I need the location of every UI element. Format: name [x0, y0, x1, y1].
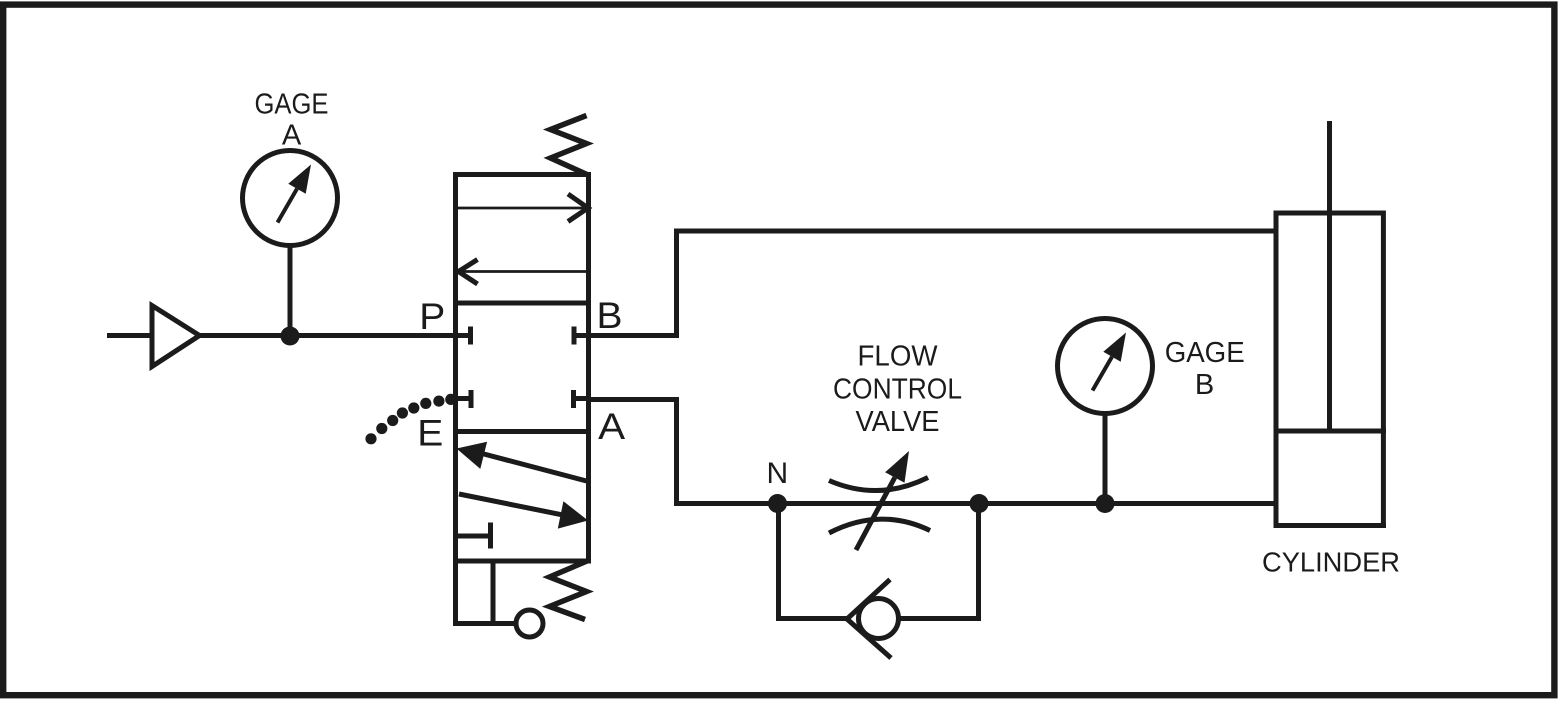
svg-text:P: P [419, 296, 445, 337]
svg-text:E: E [417, 413, 443, 454]
svg-text:B: B [1195, 369, 1214, 401]
svg-text:N: N [766, 457, 788, 490]
svg-text:FLOW: FLOW [858, 341, 939, 373]
svg-text:VALVE: VALVE [856, 406, 940, 438]
svg-text:CONTROL: CONTROL [833, 374, 962, 406]
svg-text:GAGE: GAGE [255, 89, 329, 121]
svg-text:A: A [598, 406, 625, 447]
svg-text:CYLINDER: CYLINDER [1262, 547, 1400, 578]
svg-text:A: A [282, 120, 302, 152]
svg-text:B: B [597, 295, 623, 336]
svg-text:GAGE: GAGE [1165, 337, 1245, 369]
